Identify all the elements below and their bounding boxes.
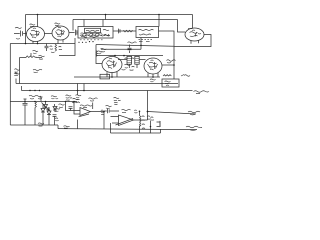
resistor R9 bbox=[140, 116, 141, 127]
label ground out bbox=[186, 126, 202, 130]
wire drop to V1 plate bbox=[37, 15, 39, 27]
wire U1 bottom return bbox=[59, 38, 75, 56]
resistor R2 bbox=[55, 44, 57, 51]
wire U3 ground drop bbox=[77, 120, 79, 129]
label stack F bbox=[134, 110, 137, 113]
node J6 bbox=[140, 45, 142, 47]
label V2 type bbox=[55, 23, 61, 25]
node J23 bbox=[29, 90, 30, 91]
capacitor C5 bbox=[128, 45, 132, 54]
label R2 C4 values bbox=[50, 46, 63, 52]
wire drop x159 to U2 box bbox=[158, 15, 160, 27]
node J19 bbox=[114, 55, 116, 57]
label stack A bbox=[66, 95, 73, 100]
resistor R8 bbox=[72, 102, 80, 103]
node J7 bbox=[111, 76, 113, 78]
label R3 value bbox=[39, 55, 45, 59]
relay K1 box bbox=[100, 74, 110, 79]
wire stub x41 bbox=[40, 97, 43, 102]
label D3 D4 values bbox=[54, 108, 60, 121]
label under rail bbox=[64, 126, 70, 128]
wire stub x69 bbox=[68, 100, 70, 103]
label R11 bbox=[167, 60, 176, 63]
node J9 bbox=[77, 90, 79, 92]
resistor R1 bbox=[124, 30, 133, 32]
label U3 bbox=[80, 105, 92, 108]
capacitor C7 bbox=[69, 107, 73, 111]
resistor R5 box bbox=[127, 56, 132, 64]
label U4 bbox=[122, 109, 131, 112]
label riser value bbox=[147, 116, 151, 119]
diode D2 bbox=[53, 104, 57, 112]
label 47k bbox=[97, 51, 103, 54]
node J18 bbox=[150, 126, 152, 128]
feedback loop wire bbox=[162, 79, 179, 87]
diode D1 bbox=[42, 102, 50, 111]
wire x150.5 drop bbox=[150, 121, 152, 134]
wire R7 tail bbox=[34, 108, 36, 126]
wire U1 to U2 bbox=[113, 30, 136, 32]
wire V3 feed corner bbox=[178, 20, 186, 33]
wire L2 left stub bbox=[15, 79, 17, 84]
resistor R4 bbox=[163, 75, 171, 76]
label 100k bbox=[89, 98, 98, 101]
resistor R6 box bbox=[135, 56, 139, 64]
label D1 D2 bbox=[59, 104, 65, 108]
wire V5 pin drops bbox=[148, 73, 158, 77]
label C8 bbox=[106, 105, 112, 108]
diode D3 bbox=[41, 104, 45, 125]
divider U2 box bbox=[136, 27, 159, 38]
op-amp U4 bbox=[111, 115, 134, 126]
wire U2 output bbox=[159, 31, 175, 47]
node J2 bbox=[105, 14, 107, 16]
wire C6 tail bbox=[24, 108, 26, 126]
wire to U3 bbox=[66, 102, 71, 111]
wire R9 top bbox=[139, 111, 141, 115]
node J20 bbox=[123, 55, 125, 57]
resistor R12 bbox=[96, 51, 97, 57]
wire stub x84 bbox=[83, 84, 85, 91]
wire right drop to V3 bbox=[192, 15, 194, 29]
node J22 bbox=[139, 111, 141, 113]
capacitor C3 bbox=[119, 29, 121, 34]
wire frame jog bbox=[57, 125, 59, 129]
node J16 bbox=[103, 111, 105, 113]
label below frame bbox=[38, 123, 44, 126]
resistor R10 bbox=[157, 121, 161, 127]
left frame wire bbox=[9, 44, 11, 126]
tube V3 bbox=[185, 28, 204, 44]
wire T2 left drop bbox=[110, 123, 112, 133]
wire U3 output bbox=[91, 111, 105, 113]
wire V1-V2 coupling bbox=[45, 33, 53, 35]
wire plate bus bbox=[96, 55, 163, 57]
label to AFC bbox=[194, 91, 210, 94]
wire bus L3 bbox=[22, 90, 193, 92]
label C5 bbox=[128, 42, 137, 43]
label R5 R6 values bbox=[122, 58, 135, 70]
wire V3 output loop bbox=[174, 35, 211, 80]
wire bottom frame bbox=[10, 124, 58, 126]
wire drop x103 to U1 box bbox=[102, 20, 104, 27]
diode D4 bbox=[47, 107, 51, 125]
label R8 value bbox=[73, 99, 79, 100]
label near tap bbox=[151, 117, 155, 120]
wire cathode bus bbox=[10, 43, 75, 45]
node J17 bbox=[147, 111, 149, 113]
node J21 bbox=[73, 101, 75, 103]
capacitor C8 bbox=[104, 109, 119, 113]
label R7 C6 values bbox=[29, 95, 42, 99]
capacitor C4 bbox=[45, 44, 49, 52]
node J8 bbox=[152, 76, 154, 78]
node J1 bbox=[37, 14, 39, 16]
label 101 bbox=[33, 50, 39, 53]
label C in bbox=[15, 69, 20, 74]
wire output line bbox=[148, 112, 197, 115]
wire ground bus bbox=[58, 129, 197, 130]
op-amp U3 bbox=[70, 102, 91, 116]
label +15 bbox=[181, 75, 190, 77]
wire drop x105.5 bbox=[105, 15, 107, 20]
wire V4 grid feed bbox=[96, 45, 102, 64]
wire V5 plate bbox=[162, 64, 174, 66]
label stack B bbox=[76, 95, 82, 100]
wire bus4 bbox=[96, 45, 174, 47]
node J5 bbox=[37, 43, 39, 45]
label B+ rail bbox=[14, 73, 20, 76]
tube V4 bbox=[102, 57, 122, 73]
tube V1 bbox=[27, 27, 45, 44]
capacitor C6 bbox=[23, 99, 28, 108]
node J12 bbox=[24, 101, 26, 103]
capacitor C2 bbox=[69, 30, 78, 36]
wire bus L2 bbox=[16, 83, 178, 85]
label output bbox=[188, 111, 200, 115]
node J24 bbox=[34, 90, 35, 91]
wire R8 riser bbox=[92, 103, 94, 110]
wire lower rail bbox=[111, 132, 161, 134]
label U2 pins bbox=[139, 40, 152, 42]
label stack D bbox=[51, 96, 58, 99]
capacitor C1 input bbox=[14, 28, 27, 40]
label stack E bbox=[101, 110, 104, 115]
wire R9 tail bbox=[139, 126, 141, 133]
wire screen bus bbox=[101, 38, 141, 50]
node J10 bbox=[83, 90, 85, 92]
label 45 bbox=[101, 48, 107, 52]
wire tube links bbox=[118, 60, 146, 69]
wire L3 left stub bbox=[21, 86, 23, 91]
feedback wire U4 bbox=[79, 114, 134, 125]
node J25 bbox=[39, 90, 40, 91]
wire second bus bbox=[73, 19, 178, 21]
wire output riser bbox=[147, 112, 149, 121]
wire detector bus bbox=[10, 101, 77, 103]
label V1 type bbox=[30, 24, 36, 26]
wire drop x73 bbox=[72, 20, 74, 31]
potentiometer R3 bbox=[20, 53, 43, 84]
label stack C bbox=[114, 98, 121, 105]
tube V5 bbox=[144, 58, 162, 74]
node J15 bbox=[65, 101, 67, 103]
capacitor C9 bbox=[53, 115, 57, 125]
wire V4 pin drops bbox=[107, 72, 117, 77]
node J14 bbox=[45, 101, 47, 103]
wire L3 tap bbox=[147, 91, 149, 112]
wire drop left branch bbox=[25, 15, 27, 44]
node J4 bbox=[25, 43, 27, 45]
wire bus L1 bbox=[74, 76, 160, 78]
wire x104 drop bbox=[103, 112, 105, 129]
label +150v bbox=[33, 69, 42, 72]
tube V2 bbox=[52, 26, 69, 44]
node J3 bbox=[158, 14, 160, 16]
wire stub x77.5 bbox=[77, 84, 79, 91]
wire top supply bus bbox=[26, 14, 193, 16]
multivibrator U1 box bbox=[78, 27, 113, 40]
node J13 bbox=[34, 101, 36, 103]
wire rail link bbox=[160, 129, 162, 133]
dotted continuation bbox=[78, 41, 93, 43]
wire U4 output bbox=[134, 119, 148, 121]
node J11 bbox=[173, 64, 175, 66]
label R9 values bbox=[142, 116, 146, 129]
resistor R7 bbox=[35, 102, 36, 108]
wire x77.5 drop bbox=[77, 91, 79, 96]
label bus ends bbox=[150, 79, 156, 82]
wire drop x84 to U1 box bbox=[83, 20, 85, 27]
label R4 value bbox=[165, 81, 171, 86]
